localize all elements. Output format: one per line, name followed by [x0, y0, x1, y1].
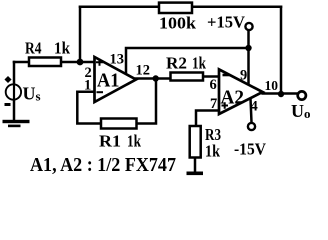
svg-text:100k: 100k: [159, 14, 197, 33]
svg-text:U: U: [291, 101, 304, 121]
svg-text:1k: 1k: [205, 142, 221, 161]
svg-text:1k: 1k: [54, 39, 71, 58]
svg-text:R2: R2: [166, 54, 187, 73]
svg-text:7: 7: [210, 96, 217, 112]
svg-text:R4: R4: [25, 39, 42, 58]
svg-text:A1: A1: [97, 70, 120, 92]
svg-text:10: 10: [265, 78, 279, 93]
svg-text:U: U: [23, 84, 36, 104]
svg-text:A2: A2: [221, 87, 245, 109]
svg-text:o: o: [304, 106, 311, 121]
svg-text:12: 12: [136, 63, 151, 79]
svg-text:1: 1: [84, 78, 91, 94]
svg-text:13: 13: [110, 52, 125, 68]
svg-text:4: 4: [251, 99, 258, 115]
svg-text:R1: R1: [99, 132, 121, 151]
svg-text:s: s: [36, 89, 41, 104]
svg-text:A1, A2 : 1/2 FX747: A1, A2 : 1/2 FX747: [30, 154, 176, 176]
svg-text:1k: 1k: [127, 132, 142, 151]
svg-text:+15V: +15V: [207, 13, 246, 32]
svg-text:-15V: -15V: [234, 140, 267, 159]
svg-text:9: 9: [240, 68, 247, 84]
svg-text:1k: 1k: [192, 54, 207, 73]
svg-text:6: 6: [210, 77, 217, 93]
